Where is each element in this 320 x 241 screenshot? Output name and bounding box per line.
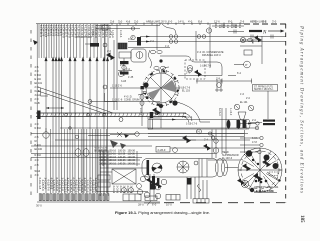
svg-text:3'-6: 3'-6 [196,131,201,134]
svg-text:4'-0: 4'-0 [35,159,40,162]
right mid valve stand [234,104,275,128]
svg-text:2'-8: 2'-8 [35,164,40,167]
svg-text:ST. PIPING (FUT.): ST. PIPING (FUT.) [254,86,273,88]
svg-text:EL 103: EL 103 [182,90,190,93]
svg-text:UPPER PLAN EL 101: UPPER PLAN EL 101 [254,186,279,189]
H valve station [215,79,223,92]
svg-text:3-LB: 3-LB [121,80,126,83]
instrument bubble F [131,35,135,39]
svg-text:2-LB-4: 2-LB-4 [139,108,142,116]
svg-text:2'-4: 2'-4 [204,138,209,141]
top tick marks [112,23,240,26]
svg-text:Figure 19-1. Piping arrangemen: Figure 19-1. Piping arrangement drawing—… [115,210,210,215]
running head (rotated) [299,25,305,223]
svg-text:2-LB-3: 2-LB-3 [119,30,122,38]
east stub pipes [240,122,263,154]
svg-text:3'-0: 3'-0 [128,38,133,41]
svg-text:EL 100: EL 100 [35,148,43,151]
pump motors row [122,176,161,198]
svg-text:3-CA: 3-CA [35,94,41,97]
rack west edge line [36,24,38,193]
svg-text:DRUM EL 103'-0: DRUM EL 103'-0 [202,54,221,57]
svg-text:MATCH LINE E: MATCH LINE E [250,21,267,24]
svg-text:M: M [35,140,37,143]
condensate drum plan circle [143,70,179,108]
pipe pair to east [128,35,286,44]
pipe run y146 [31,145,152,147]
exchanger nozzles dark [242,150,279,192]
svg-text:3-CA-6: 3-CA-6 [116,186,119,194]
texts west of drum [120,64,134,83]
svg-text:3-LB-21-6: 3-LB-21-6 [98,25,102,38]
west instrument circle [43,128,49,138]
drum south valves [147,107,161,128]
exchanger lever [267,172,281,182]
svg-text:1'-6: 1'-6 [165,45,170,48]
svg-text:SUPPLY 150 P.S.I.: SUPPLY 150 P.S.I. [254,89,274,91]
instrument bubble L [173,148,178,153]
east riser [244,130,246,153]
svg-text:1-LB-17-6: 1-LB-17-6 [200,65,212,68]
pipe run y102 [88,98,160,103]
svg-text:2-LB-9: 2-LB-9 [158,148,166,152]
bubble on line y28 [131,27,134,30]
pump foundation X-box [112,169,136,184]
pump area labels [112,186,133,194]
svg-text:140-16: 140-16 [109,162,117,165]
svg-text:2'-6: 2'-6 [110,20,115,24]
platform verticals [218,108,232,154]
svg-text:3-CA-6: 3-CA-6 [119,186,122,194]
svg-text:3'-6: 3'-6 [240,20,245,24]
west L connector [41,88,49,96]
legend text block [99,150,136,166]
drum label west + leader [124,93,147,102]
svg-text:3-CA-6: 3-CA-6 [126,186,129,194]
svg-text:EL 101: EL 101 [35,82,43,85]
svg-text:3'-8: 3'-8 [216,77,221,80]
pipes into exchanger [208,160,240,168]
SW dimension slash [144,201,160,206]
svg-text:17-8: 17-8 [252,141,257,144]
drawing border top [36,23,286,25]
north arrow [249,30,285,36]
pipe rack lower infill lines [50,129,106,193]
pump bay grid [98,150,148,196]
instrument bubble T [206,28,211,33]
svg-text:W 14: W 14 [35,170,41,173]
grade note [254,186,279,193]
pipe rack main lines [46,58,108,193]
dashed instrument enclosure [185,60,205,79]
svg-text:4-LB-17-6: 4-LB-17-6 [84,25,88,38]
svg-text:4'-6: 4'-6 [126,20,131,24]
svg-text:2'-0: 2'-0 [35,86,40,89]
rack bottom footing boxes [39,194,109,201]
exchanger plan circle [238,148,282,192]
svg-text:2'-0: 2'-0 [246,97,251,100]
drum label [179,87,191,93]
mid connector lines [96,24,124,76]
platform band lines [148,111,250,129]
riser x157 [156,24,158,50]
grade note underline [254,192,277,194]
NE valve cluster [240,35,262,64]
pipe run y157.5 [31,157,142,159]
drum west valve cluster [139,86,144,126]
svg-text:AREA LIMIT 20'-0: AREA LIMIT 20'-0 [146,20,167,24]
svg-text:EL 104'-6: EL 104'-6 [222,157,233,160]
exchanger inner spokes [244,154,276,186]
svg-text:3'-0: 3'-0 [118,20,123,24]
exchanger radial ticks [238,148,282,192]
control valve manifold [149,50,166,70]
svg-text:N 210: N 210 [35,127,42,130]
svg-text:1'-6: 1'-6 [240,93,245,96]
X mark [110,132,139,138]
svg-text:6-CA-22-8: 6-CA-22-8 [101,25,105,38]
pump area base line [96,192,148,201]
exchanger dot row [252,159,268,184]
small circle on band [119,118,123,122]
svg-text:8'-6: 8'-6 [198,20,203,24]
exchanger drain circle [241,180,248,187]
svg-text:N: N [262,30,267,35]
reboiler vessel [142,159,228,178]
main EW pipe double line [36,111,186,120]
NE tick labels [214,25,241,29]
svg-text:Piping Arrangement Drawings, S: Piping Arrangement Drawings, Sections, a… [299,25,304,194]
svg-text:1'-10 1'-6: 1'-10 1'-6 [112,98,123,101]
right col riser [267,91,269,119]
mid-top tiny texts [150,40,170,48]
drawing border right (match line) [285,24,287,203]
pipe rack label stub lines [39,24,108,58]
dark wedge cluster [110,140,126,149]
south structure columns [145,174,209,203]
svg-text:2'-0: 2'-0 [252,119,257,122]
exchanger west bowtie [237,178,245,185]
reboiler south bowties [146,178,162,189]
figure caption [115,210,210,215]
svg-text:3-CA-6: 3-CA-6 [112,186,115,194]
svg-text:3'-0: 3'-0 [35,174,40,177]
pipe run y140 [55,139,250,143]
right col small texts [240,93,251,104]
NE flanged pipes [210,24,244,68]
flow arrowheads on rack lines [45,57,110,62]
svg-text:3-LB-15-6: 3-LB-15-6 [77,25,81,38]
rack bottom labels (rotated) [38,178,98,193]
svg-text:2'-0: 2'-0 [134,20,139,24]
svg-text:1'-35: 1'-35 [94,147,97,153]
instrument bubble W [118,71,123,76]
instrument riser x105 [103,85,117,102]
pipe run y47.5 [128,47,170,49]
drum west inlet pipe [110,85,146,88]
svg-text:6-CA-16-8: 6-CA-16-8 [80,25,84,38]
pump discharge flanges [145,175,167,185]
svg-text:6'-2: 6'-2 [237,72,242,75]
drum top pipe [161,67,169,73]
svg-text:P: P [245,63,247,67]
svg-text:6-LB: 6-LB [35,90,40,93]
head suppressor note [222,151,239,160]
west small arrow [33,40,38,45]
EW pipe bend down [183,113,192,123]
svg-text:N 210: N 210 [35,154,42,157]
svg-text:E 104: E 104 [35,78,42,81]
drawing border bottom [37,201,285,204]
instrument bubble on overhead [187,65,192,70]
svg-text:1'-35: 1'-35 [128,76,134,79]
south misc symbols [137,184,201,192]
mid tick labels [107,30,133,53]
svg-text:185: 185 [299,215,304,223]
future piping note box [253,85,278,92]
svg-text:6'-0: 6'-0 [168,20,173,24]
svg-text:3'-0: 3'-0 [272,20,277,24]
pipe run y135 short [88,135,110,137]
instrument bubble NE [234,61,250,75]
drum title label [197,51,224,57]
drawing border left [30,30,32,200]
svg-text:3'-0: 3'-0 [35,70,40,73]
valves inside enclosure [188,31,202,77]
svg-text:3-CA-6: 3-CA-6 [130,186,133,194]
svg-text:2-CA-24-8: 2-CA-24-8 [94,178,98,192]
svg-text:10'-0: 10'-0 [166,203,172,207]
svg-text:4-CA-6: 4-CA-6 [111,30,114,38]
top area tiny dimension texts [91,20,277,36]
top-left S-bend pipe [162,24,176,34]
dimension line above main pipe [46,107,64,109]
exchanger hatched block [137,37,141,46]
svg-text:1'-10 2'-4: 1'-10 2'-4 [182,116,193,119]
svg-text:3-CA-18-8: 3-CA-18-8 [87,25,91,38]
svg-text:2'-0: 2'-0 [150,40,155,43]
vent box [156,147,170,153]
dark pump block [187,178,192,185]
svg-text:12'-6: 12'-6 [214,20,220,24]
north boundary small box [96,25,160,30]
svg-text:P-101: P-101 [35,144,42,147]
svg-text:COND. DRUM: COND. DRUM [124,98,140,101]
small drum plan [131,49,146,62]
drum outlet pipe south [161,102,210,128]
svg-text:140-26: 140-26 [118,162,126,165]
svg-text:2'-6: 2'-6 [186,72,191,75]
inter-vessel piping [148,130,260,159]
battery limit valve set [90,24,132,110]
svg-text:6-LB: 6-LB [35,102,40,105]
overhead dim line [196,79,252,84]
svg-text:6-CA-3: 6-CA-3 [218,108,221,116]
pipe line labels (rotated) top of rack [39,25,112,38]
pipe run y128 [60,126,259,138]
drum ring bolt pads [143,70,178,105]
svg-text:T: T [208,29,210,33]
svg-text:14'-0: 14'-0 [178,20,184,24]
svg-text:4'-6: 4'-6 [91,31,95,36]
dim texts bottom centre [138,203,172,207]
svg-text:N 216: N 216 [35,74,42,77]
svg-text:140-36: 140-36 [128,162,136,165]
drum rim nozzle ticks [143,69,180,106]
legend block marks [103,151,137,166]
svg-text:4-LB-2: 4-LB-2 [229,108,232,116]
short connectors NW [76,37,96,44]
svg-text:28'-0: 28'-0 [138,203,144,207]
svg-text:4'-6: 4'-6 [35,66,40,69]
svg-text:2'-0: 2'-0 [35,98,40,101]
pipe run y133 [31,129,248,134]
svg-text:2'-6: 2'-6 [107,50,112,53]
diagonal pipe pair [38,87,113,114]
west tag texts [35,66,43,177]
svg-text:EL 101: EL 101 [240,101,248,104]
svg-text:1-LB-17-6: 1-LB-17-6 [186,123,198,126]
mid rack rotated labels [94,147,108,153]
west oval pair [75,149,89,157]
svg-text:2'-6: 2'-6 [35,136,40,139]
svg-text:6-CA: 6-CA [252,137,258,140]
pipe run y153.5 [31,153,215,155]
svg-text:4'-0: 4'-0 [35,123,40,126]
svg-text:3-CA-6: 3-CA-6 [123,186,126,194]
svg-text:30'-0: 30'-0 [36,204,42,208]
drum overhead pipe with elbow [160,56,236,80]
